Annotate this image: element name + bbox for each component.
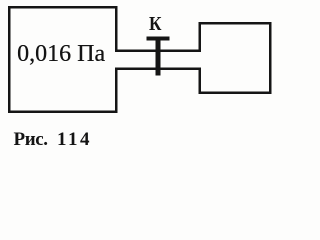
valve K stem (vertical bar)	[155, 41, 160, 76]
left vessel V1 left wall	[8, 6, 11, 113]
right vessel V2 left wall lower segment	[199, 68, 201, 94]
connecting tube top wall	[115, 50, 201, 52]
right vessel V2 top wall	[199, 22, 272, 24]
right vessel V2 bottom wall	[199, 92, 272, 94]
caption number 114	[57, 129, 92, 151]
valve label K	[149, 13, 161, 36]
right vessel V2 left wall upper segment	[199, 22, 201, 52]
left vessel V1 top wall	[8, 6, 118, 9]
caption Рис. 114	[14, 129, 48, 151]
connecting tube bottom wall	[115, 68, 200, 70]
left vessel V1 right wall lower segment	[115, 68, 118, 113]
left vessel V1 bottom wall	[8, 110, 118, 113]
right vessel V2 right wall	[269, 22, 271, 94]
pressure label 0,016 Па	[17, 41, 105, 68]
left vessel V1 right wall upper segment	[115, 6, 118, 52]
valve K cap (horizontal bar)	[147, 36, 170, 40]
